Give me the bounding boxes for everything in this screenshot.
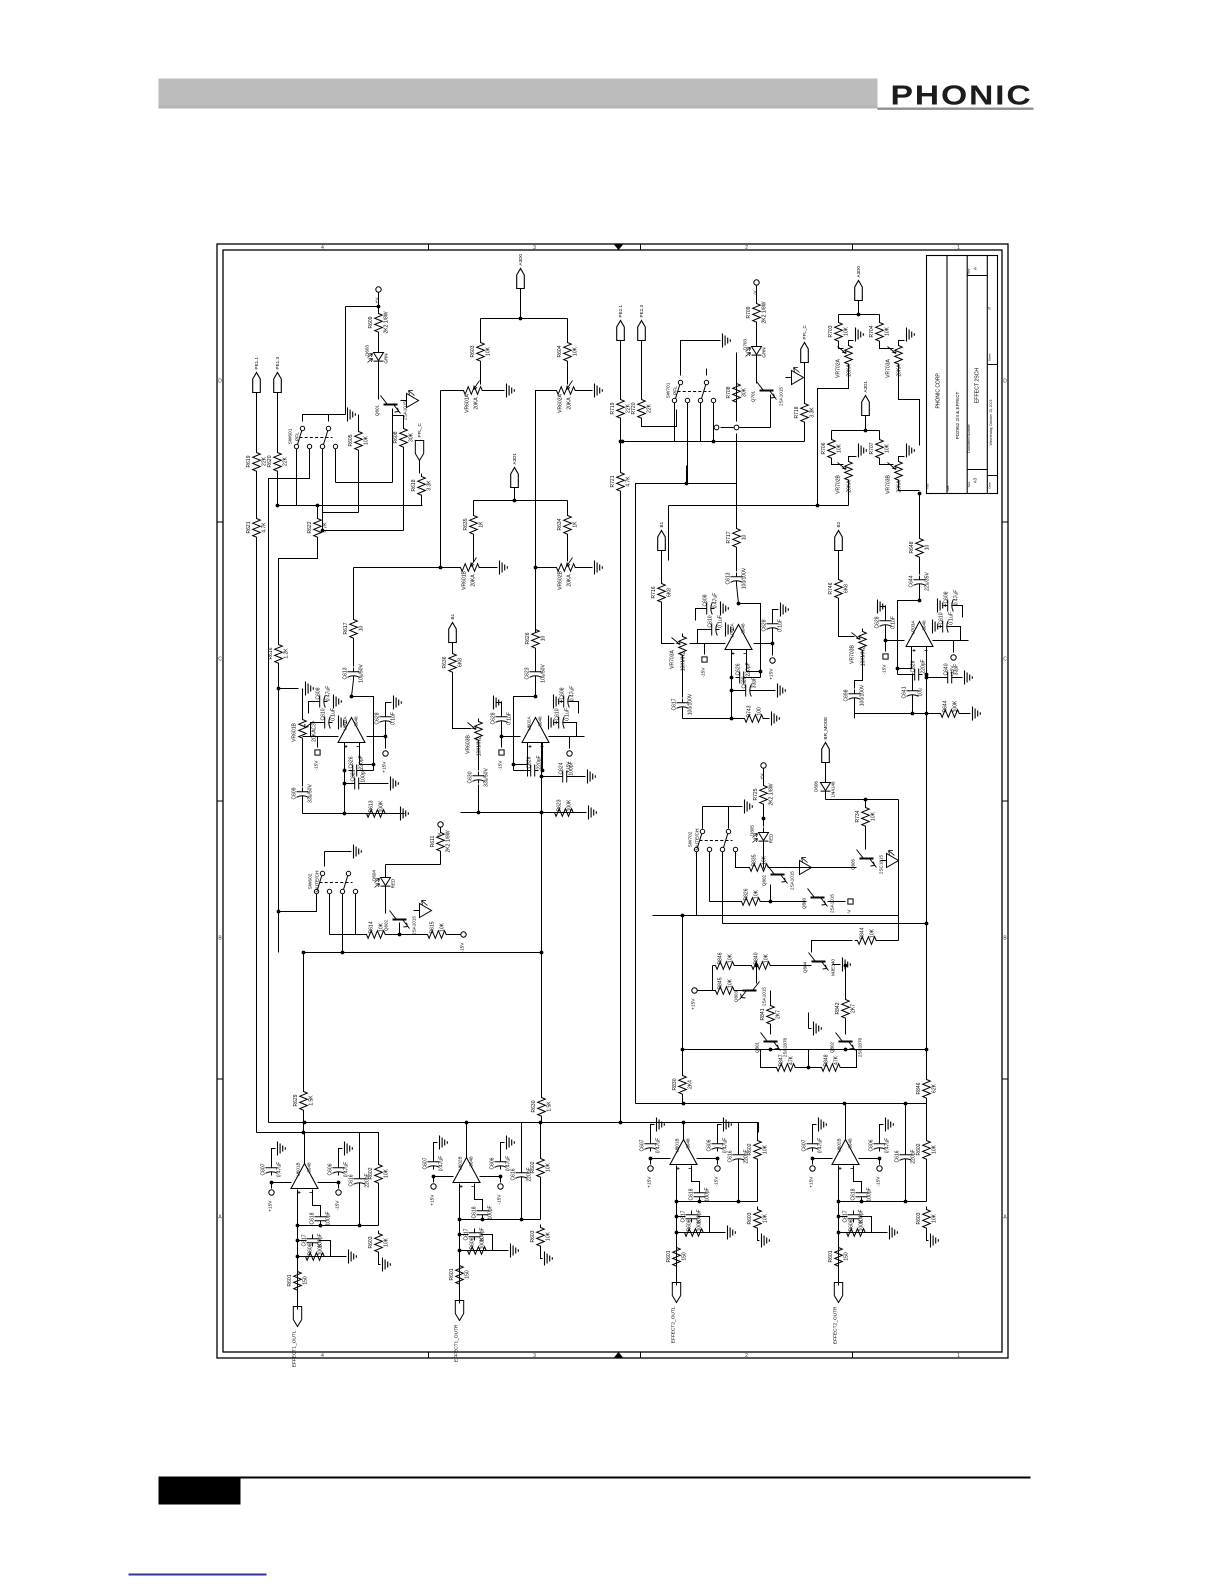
svg-text:2SA1015: 2SA1015	[790, 871, 795, 890]
svg-text:C616: C616	[728, 1150, 734, 1162]
wire	[770, 885, 772, 902]
svg-text:R841: R841	[760, 1008, 766, 1020]
wire feedback	[514, 697, 536, 771]
wire	[698, 630, 708, 644]
junction	[540, 775, 544, 779]
svg-text:10K: 10K	[885, 326, 891, 336]
svg-text:100K: 100K	[480, 1237, 486, 1249]
resistor R602	[537, 1156, 545, 1180]
svg-text:20KA: 20KA	[847, 480, 853, 493]
svg-text:100pF: 100pF	[361, 768, 367, 782]
wire	[927, 1231, 929, 1241]
junction	[844, 1048, 848, 1052]
wire	[324, 852, 326, 867]
capacitor C621	[351, 778, 363, 790]
wire	[480, 1176, 501, 1178]
wire	[721, 427, 734, 429]
junction	[918, 492, 922, 496]
svg-text:C628: C628	[375, 712, 381, 724]
svg-text:10K: 10K	[837, 443, 843, 453]
junction	[350, 695, 354, 699]
capacitor C608	[560, 696, 572, 708]
wire	[736, 442, 738, 526]
svg-text:VR703B: VR703B	[886, 475, 892, 494]
wire	[302, 689, 304, 717]
svg-text:-15V: -15V	[498, 760, 504, 771]
wire	[839, 1216, 848, 1218]
wire	[353, 568, 355, 617]
wire	[642, 410, 677, 427]
capacitor C610	[939, 621, 951, 633]
wire	[328, 415, 330, 422]
capacitor C624	[559, 771, 571, 783]
capacitor C616	[900, 1151, 912, 1163]
wire	[367, 736, 386, 738]
capacitor C613	[348, 668, 360, 680]
wire	[838, 1269, 840, 1286]
junction	[904, 1102, 908, 1106]
frame outer border	[217, 244, 1008, 1358]
wire	[843, 1050, 857, 1068]
wire	[277, 393, 279, 450]
svg-text:150: 150	[303, 1276, 309, 1285]
wire	[763, 819, 765, 827]
terminal -15V	[499, 750, 504, 755]
wire	[880, 607, 886, 617]
wire	[342, 894, 344, 953]
ground	[723, 334, 731, 348]
svg-text:0.47uF: 0.47uF	[713, 593, 719, 609]
svg-text:0.1uF: 0.1uF	[565, 708, 571, 721]
wire	[359, 1133, 361, 1175]
svg-text:4.7K: 4.7K	[626, 476, 632, 487]
svg-text:0.47uF: 0.47uF	[656, 1138, 662, 1154]
svg-text:C607: C607	[423, 1157, 429, 1169]
wire	[953, 641, 955, 653]
wire	[731, 650, 733, 678]
junction	[541, 769, 545, 773]
wire	[854, 1166, 862, 1190]
resistor R709	[753, 301, 761, 325]
svg-text:B1: B1	[450, 613, 455, 619]
wire	[919, 560, 921, 575]
wire	[346, 306, 379, 308]
resistor R648	[916, 536, 924, 560]
svg-text:C618: C618	[689, 1188, 695, 1200]
wire	[569, 737, 571, 749]
wire	[278, 689, 280, 953]
wire	[478, 743, 480, 771]
wire	[818, 364, 849, 506]
wire	[541, 1249, 543, 1259]
capacitor C629	[742, 685, 754, 697]
wire	[378, 293, 380, 311]
svg-text:0.47uF: 0.47uF	[326, 686, 332, 702]
svg-text:R844: R844	[860, 927, 866, 939]
wire	[839, 314, 880, 316]
svg-text:Q803: Q803	[734, 990, 739, 1002]
junction	[439, 566, 443, 570]
svg-text:-15V: -15V	[314, 760, 320, 771]
resistor R608	[400, 426, 408, 450]
wire	[845, 1104, 847, 1140]
svg-text:10K: 10K	[384, 1168, 390, 1178]
ground	[724, 1118, 732, 1132]
wire	[736, 852, 747, 868]
capacitor C610	[321, 717, 333, 729]
wire	[808, 1013, 810, 1029]
capacitor C606	[874, 1140, 886, 1152]
svg-text:C628: C628	[491, 712, 497, 724]
svg-text:20KA: 20KA	[474, 397, 480, 410]
terminal -15V	[498, 1184, 503, 1189]
svg-text:R606: R606	[308, 1243, 314, 1255]
capacitor C609	[297, 788, 309, 800]
title block	[927, 256, 998, 494]
wire	[542, 776, 559, 778]
svg-text:R603: R603	[530, 1230, 536, 1242]
svg-text:1: 1	[957, 1353, 960, 1359]
ground	[394, 696, 402, 710]
wire	[466, 1123, 468, 1158]
wire	[770, 991, 772, 1006]
wire	[421, 498, 423, 506]
svg-text:33pF: 33pF	[752, 677, 758, 688]
wire	[686, 466, 688, 484]
junction	[343, 782, 347, 786]
wire	[804, 363, 806, 401]
transistor Q701	[760, 390, 774, 392]
svg-text:C630: C630	[468, 771, 474, 783]
svg-text:0.47uF: 0.47uF	[570, 686, 576, 702]
wire	[683, 1123, 685, 1140]
junction	[540, 811, 544, 815]
svg-text:EFFECT2_OUTR: EFFECT2_OUTR	[833, 1306, 839, 1344]
wire	[661, 551, 663, 581]
wire	[651, 1158, 671, 1160]
ground	[819, 1118, 827, 1132]
wire	[926, 1104, 928, 1138]
wire	[736, 405, 738, 422]
svg-text:D805: D805	[750, 825, 755, 836]
svg-text:3048: 3048	[307, 1162, 312, 1173]
svg-text:20KAC3: 20KAC3	[312, 723, 318, 742]
transistor Q805	[860, 858, 874, 860]
wire	[311, 723, 321, 737]
junction	[465, 1121, 469, 1125]
resistor R703	[835, 320, 843, 344]
wire	[378, 1133, 380, 1162]
wire	[702, 807, 704, 829]
junction	[649, 1157, 653, 1161]
wire	[496, 703, 502, 713]
svg-text:100pF: 100pF	[488, 1205, 494, 1219]
wire	[832, 459, 844, 465]
resistor R835	[747, 864, 771, 872]
svg-text:0.47uF: 0.47uF	[277, 1162, 283, 1178]
wire	[636, 1103, 927, 1105]
svg-text:C606: C606	[869, 1139, 875, 1151]
capacitor C626	[736, 672, 748, 684]
svg-text:MJE340: MJE340	[831, 959, 836, 976]
wire	[257, 1133, 379, 1159]
svg-text:SW702: SW702	[688, 831, 694, 847]
svg-text:D703: D703	[743, 339, 748, 350]
wire	[385, 865, 387, 873]
wire	[345, 783, 351, 785]
wire	[886, 640, 905, 642]
svg-text:C641: C641	[902, 686, 908, 698]
wire	[763, 807, 765, 827]
switch SW602	[314, 889, 318, 893]
svg-text:10K: 10K	[871, 811, 877, 821]
svg-text:+15V: +15V	[382, 761, 388, 773]
footer rule	[159, 1477, 1031, 1479]
svg-text:2SC2878: 2SC2878	[783, 1037, 788, 1057]
svg-text:Document Number: Document Number	[967, 423, 971, 452]
buffer flag	[401, 394, 419, 408]
capacitor C607	[428, 1158, 440, 1170]
wire	[736, 550, 738, 572]
wire	[440, 828, 442, 830]
svg-text:R706: R706	[821, 442, 827, 454]
junction	[843, 1102, 847, 1106]
terminal +15V	[951, 655, 956, 660]
wire	[363, 783, 389, 785]
svg-text:150: 150	[465, 1270, 471, 1279]
wire	[756, 325, 758, 343]
wire	[677, 1232, 710, 1234]
capacitor C610	[708, 624, 720, 636]
svg-text:PE1.3: PE1.3	[275, 357, 280, 370]
wire	[500, 1177, 502, 1183]
buffer flag	[786, 371, 804, 385]
junction	[837, 1231, 841, 1235]
svg-text:R716: R716	[651, 586, 657, 598]
svg-text:C609: C609	[292, 787, 298, 799]
svg-text:10: 10	[541, 636, 547, 642]
wire	[736, 381, 738, 405]
transistor Q803	[811, 897, 825, 899]
wire	[763, 847, 765, 869]
wire	[536, 567, 554, 569]
potentiometer VR601B	[299, 717, 307, 741]
wire	[926, 1050, 928, 1077]
resistor R619	[253, 450, 261, 474]
junction	[458, 1218, 462, 1222]
wire	[926, 647, 928, 675]
junction	[358, 1224, 362, 1228]
wire	[385, 737, 387, 749]
potentiometer VR703A	[895, 343, 903, 367]
wire	[740, 427, 771, 429]
wire	[302, 741, 304, 787]
svg-text:BR_MODE: BR_MODE	[823, 717, 828, 740]
resistor R630	[538, 1095, 546, 1119]
svg-text:R606: R606	[470, 1237, 476, 1249]
terminal -V	[754, 280, 759, 285]
resistor R622	[314, 516, 322, 540]
junction	[277, 687, 281, 691]
svg-text:U602A: U602A	[527, 716, 532, 731]
svg-text:C618: C618	[310, 1212, 316, 1224]
wire	[650, 1159, 652, 1165]
svg-text:100K: 100K	[567, 799, 573, 811]
op-amp U802B	[832, 1140, 859, 1165]
svg-text:Date: Date	[988, 482, 992, 489]
junction	[372, 763, 376, 767]
ground	[973, 707, 981, 721]
LED D703	[752, 342, 762, 361]
wire	[905, 1104, 907, 1151]
svg-text:10K: 10K	[932, 1144, 938, 1154]
wire	[541, 743, 543, 777]
wire	[839, 1232, 872, 1234]
resistor R616	[275, 642, 283, 666]
ground	[383, 1258, 391, 1272]
potentiometer VR703B	[895, 459, 903, 483]
wire	[669, 505, 849, 507]
svg-text:R719: R719	[610, 402, 616, 414]
wire	[808, 1050, 810, 1068]
connector A3D1	[511, 468, 519, 488]
junction	[769, 900, 773, 904]
wire	[336, 482, 393, 484]
svg-text:Q802: Q802	[762, 874, 767, 886]
junction	[925, 673, 929, 677]
svg-text:150: 150	[682, 1252, 688, 1261]
wire	[682, 658, 684, 698]
wire	[358, 453, 360, 513]
junction	[534, 695, 538, 699]
junction	[513, 499, 517, 503]
wire	[361, 770, 374, 772]
wire	[452, 643, 454, 651]
connector	[415, 441, 423, 461]
wire	[855, 653, 863, 689]
capacitor C610	[555, 717, 567, 729]
svg-text:0.47uF: 0.47uF	[954, 590, 960, 606]
switch SW702	[694, 847, 698, 851]
svg-text:0.1uF: 0.1uF	[391, 712, 397, 725]
connector A3D0	[855, 281, 863, 301]
wire	[731, 678, 733, 719]
svg-text:-15V: -15V	[882, 664, 888, 675]
svg-text:10K: 10K	[885, 443, 891, 453]
wire PFL bus	[278, 505, 423, 507]
svg-text:10KMN2: 10KMN2	[681, 652, 687, 672]
svg-text:C610: C610	[708, 615, 714, 627]
transistor Q602	[393, 919, 407, 921]
junction	[878, 1157, 882, 1161]
svg-text:6K8: 6K8	[844, 584, 850, 593]
svg-text:10K: 10K	[364, 435, 370, 445]
wire	[677, 1201, 758, 1203]
terminal +15V	[692, 988, 697, 993]
wire	[845, 1021, 847, 1035]
svg-text:100K: 100K	[953, 700, 959, 712]
svg-text:PHONIC: PHONIC	[891, 80, 1033, 111]
svg-text:R620: R620	[267, 455, 273, 467]
junction	[904, 1200, 908, 1204]
capacitor C616	[354, 1175, 366, 1187]
wire	[473, 537, 475, 562]
wire	[899, 341, 905, 346]
footer blue underline	[129, 1574, 267, 1576]
svg-text:33pF: 33pF	[954, 664, 960, 675]
svg-text:R720: R720	[631, 402, 637, 414]
op-amp U602B	[453, 1158, 480, 1183]
ground	[401, 807, 409, 821]
wire	[756, 286, 758, 301]
resistor R602	[923, 1138, 931, 1162]
svg-text:C607: C607	[802, 1139, 808, 1151]
svg-text:R601: R601	[666, 1250, 672, 1262]
ground	[859, 444, 867, 458]
svg-text:+15V: +15V	[691, 998, 697, 1010]
connector EFFECT1_OUTL	[293, 1307, 301, 1327]
svg-text:Wednesday, October 15, 2003: Wednesday, October 15, 2003	[989, 400, 993, 446]
svg-text:10K: 10K	[728, 953, 734, 963]
ground	[345, 1142, 353, 1156]
wire	[323, 449, 359, 513]
svg-text:Sheet: Sheet	[988, 353, 992, 361]
svg-text:R603: R603	[747, 1212, 753, 1224]
title block text	[926, 266, 994, 491]
resistor R615	[425, 931, 449, 939]
resistor R717	[733, 526, 741, 550]
ground	[843, 958, 851, 972]
junction	[759, 670, 763, 674]
buffer flag	[794, 861, 812, 875]
wire	[641, 341, 643, 397]
wire	[501, 1143, 505, 1158]
junction	[925, 1048, 929, 1052]
wire	[379, 1255, 381, 1265]
wire	[279, 894, 317, 912]
resistor R617	[350, 617, 358, 641]
resistor R840	[749, 962, 773, 970]
buffer flag	[414, 904, 432, 918]
wire	[298, 1240, 307, 1242]
wire	[676, 1269, 678, 1286]
potentiometer VR703A	[679, 634, 687, 658]
svg-text:R603: R603	[916, 1212, 922, 1224]
junction	[675, 1231, 679, 1235]
wire	[738, 1163, 740, 1202]
wire	[709, 852, 711, 902]
wire	[674, 403, 676, 442]
junction	[911, 712, 915, 716]
capacitor C628	[496, 713, 508, 725]
wire	[313, 1190, 321, 1214]
wire	[898, 674, 911, 676]
wire	[833, 964, 841, 966]
svg-text:0.1uF: 0.1uF	[949, 612, 955, 625]
wire	[723, 923, 927, 925]
svg-text:Title: Title	[926, 483, 930, 489]
svg-text:PE2.3: PE2.3	[639, 305, 644, 318]
svg-text:R623: R623	[557, 799, 563, 811]
svg-text:R626: R626	[525, 632, 531, 644]
ground	[778, 684, 786, 698]
svg-text:R704: R704	[869, 325, 875, 337]
svg-text:10KMN2: 10KMN2	[861, 647, 867, 667]
wire	[899, 480, 920, 491]
wire	[527, 743, 529, 777]
wire	[549, 736, 585, 738]
svg-text:10: 10	[359, 626, 365, 632]
